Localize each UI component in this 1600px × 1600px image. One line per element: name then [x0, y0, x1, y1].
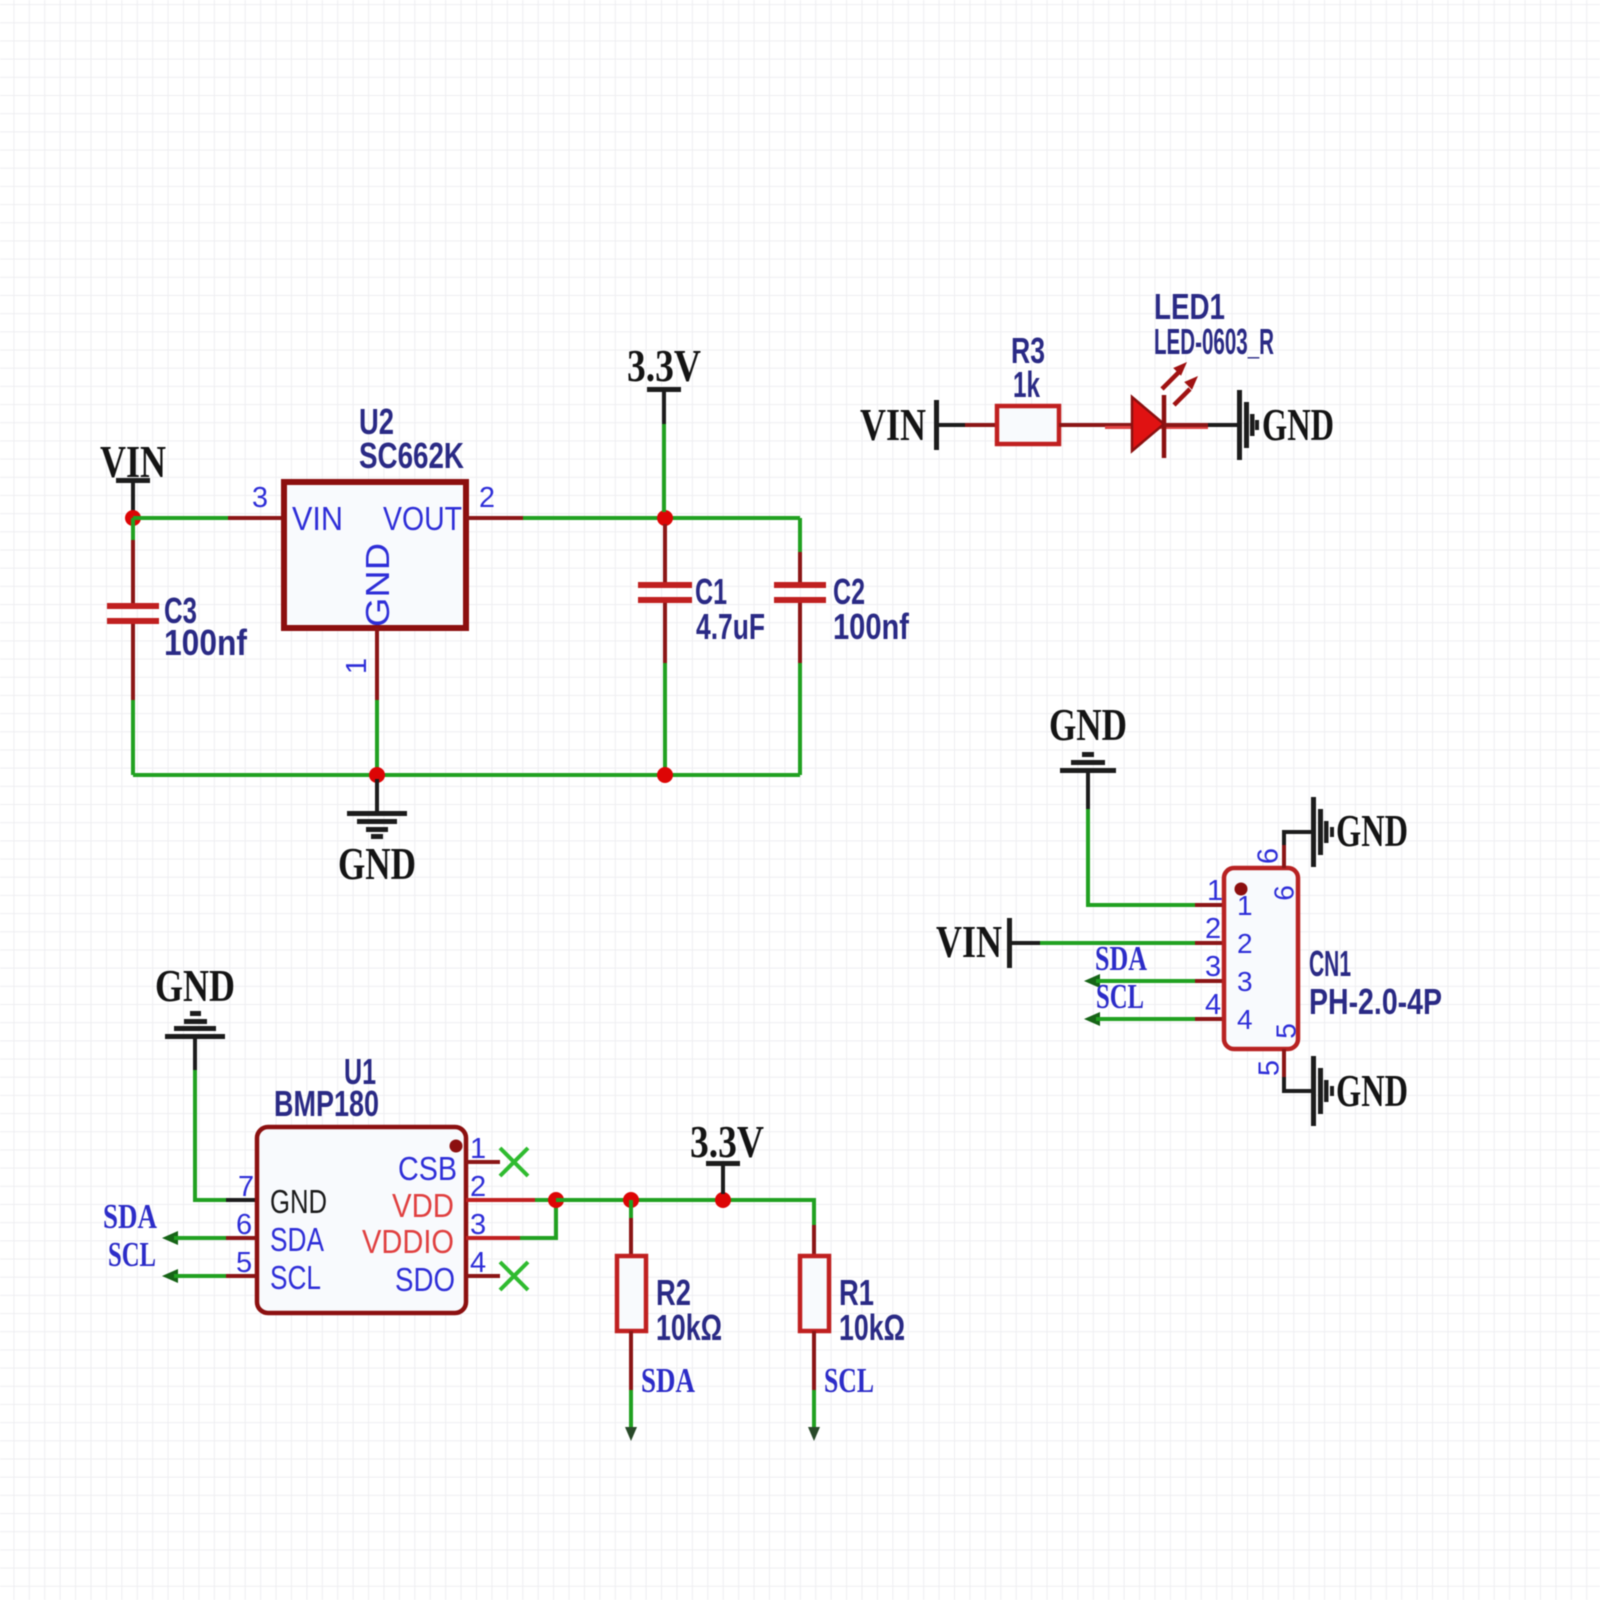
svg-text:6: 6 [1268, 885, 1299, 901]
svg-text:SC662K: SC662K [359, 435, 464, 476]
svg-text:4: 4 [1205, 989, 1221, 1021]
pin 3 stub of CN1 [1195, 979, 1224, 983]
svg-text:3: 3 [1205, 951, 1221, 983]
capacitor C1 [638, 524, 692, 775]
net flag GND (bottom right of CN1) [1311, 1056, 1408, 1126]
chip U1 body BMP180 [257, 1127, 466, 1313]
svg-text:SDA: SDA [1095, 939, 1148, 978]
svg-text:1k: 1k [1013, 364, 1041, 405]
pin 1 stub of U1 [466, 1160, 500, 1164]
wire VIN to CN1 pin 2 [1040, 941, 1195, 945]
junction VDD node [548, 1192, 564, 1208]
net flag VIN (top right) [860, 399, 965, 450]
wire VOUT to C2 corner [523, 516, 800, 520]
pin 2 stub of CN1 [1195, 941, 1224, 945]
capacitor C3 [107, 518, 159, 775]
pin 1 marker dot of U1 [450, 1140, 463, 1153]
pin 1 marker dot of CN1 [1235, 883, 1248, 896]
net flag GND (top right of CN1) [1311, 797, 1408, 867]
svg-text:BMP180: BMP180 [274, 1083, 379, 1124]
svg-text:2: 2 [1237, 928, 1253, 959]
wire U2 GND to bus [375, 700, 379, 775]
junction VIN node [125, 510, 141, 526]
svg-text:VOUT: VOUT [383, 500, 462, 537]
svg-text:VIN: VIN [936, 916, 1002, 967]
wire SDA to U1 pin 6 [162, 1231, 226, 1245]
wire GND to CN1 pin 1 [1088, 809, 1195, 905]
pin 7 stub of U1 [226, 1198, 257, 1202]
svg-text:GND: GND [155, 960, 235, 1011]
capacitor C2 [774, 518, 826, 775]
wire GND to U1 pin 7 [195, 1070, 226, 1200]
wire SCL to U1 pin 5 [162, 1269, 226, 1283]
pin 3 stub of U1 (VDDIO) [466, 1236, 520, 1240]
pin 5 stub of CN1 [1284, 1049, 1313, 1091]
svg-text:SCL: SCL [824, 1361, 874, 1400]
ground symbol (below U2) [347, 779, 407, 839]
op-amp U2 body SC662K [284, 482, 466, 628]
wire VDD to junction [535, 1198, 556, 1202]
svg-text:SDA: SDA [270, 1221, 324, 1258]
svg-text:5: 5 [1270, 1023, 1301, 1039]
net flag GND (above CN1) [1049, 699, 1127, 809]
svg-text:GND: GND [1336, 805, 1408, 856]
svg-text:10kΩ: 10kΩ [839, 1307, 905, 1348]
svg-text:3: 3 [1237, 966, 1253, 997]
svg-text:GND: GND [359, 543, 396, 627]
power flag 3.3V (top) [627, 340, 701, 512]
connector CN1 body [1224, 868, 1298, 1049]
pin 2 stub of U2 [466, 516, 523, 520]
resistor R1 [800, 1225, 829, 1441]
svg-text:SDA: SDA [641, 1361, 696, 1400]
svg-text:SDA: SDA [103, 1197, 158, 1236]
svg-text:GND: GND [1049, 699, 1127, 750]
net flag GND (right of LED1) [1237, 390, 1334, 460]
svg-text:2: 2 [479, 482, 495, 514]
no-connect cross pin 1 [500, 1148, 528, 1176]
wire ground bus [133, 773, 800, 777]
power flag 3.3V (bottom) [690, 1116, 764, 1194]
svg-text:1: 1 [1207, 875, 1223, 907]
svg-text:3: 3 [252, 482, 268, 514]
svg-text:GND: GND [338, 838, 416, 889]
svg-text:SCL: SCL [1096, 977, 1144, 1016]
svg-text:100nf: 100nf [833, 606, 910, 647]
wire LED1 to GND flag [1164, 423, 1239, 427]
svg-text:100nf: 100nf [164, 622, 248, 663]
junction 3.3V stem (bottom) [715, 1192, 731, 1208]
net flag VIN (left) [100, 436, 166, 518]
wire 3.3V bus (bottom) [556, 1200, 814, 1225]
pin 1 stub of U2 (GND) [375, 628, 379, 700]
svg-text:SDO: SDO [395, 1261, 455, 1298]
wire VDDIO to junction [520, 1200, 556, 1238]
svg-text:VDD: VDD [392, 1187, 454, 1224]
LED LED1 [1105, 362, 1208, 458]
svg-text:3.3V: 3.3V [627, 340, 701, 391]
svg-text:1: 1 [1237, 890, 1253, 921]
wire SCL to CN1 pin 4 [1084, 1012, 1195, 1026]
junction 3.3V node [657, 510, 673, 526]
svg-text:GND: GND [1262, 399, 1334, 450]
net flag GND (above U1) [155, 960, 235, 1070]
svg-text:2: 2 [1205, 913, 1221, 945]
wire VIN flag to R3 [965, 423, 997, 427]
svg-text:CN1: CN1 [1309, 943, 1351, 984]
svg-text:VIN: VIN [860, 399, 926, 450]
wire VIN to U2 pin 3 [133, 516, 228, 520]
resistor R3 [997, 406, 1059, 444]
pin 1 stub of CN1 [1195, 903, 1224, 907]
pin 3 stub of U2 [228, 516, 284, 520]
svg-text:10kΩ: 10kΩ [656, 1307, 722, 1348]
pin 4 stub of U1 [466, 1274, 500, 1278]
svg-text:GND: GND [1336, 1065, 1408, 1116]
svg-text:1: 1 [341, 658, 373, 674]
pin 5 stub of U1 [226, 1274, 257, 1278]
svg-text:5: 5 [1254, 1060, 1286, 1076]
junction ground bus at C1 [657, 767, 673, 783]
svg-text:6: 6 [1253, 848, 1285, 864]
svg-text:3.3V: 3.3V [690, 1116, 764, 1167]
svg-text:7: 7 [238, 1171, 254, 1203]
junction R2 top [623, 1192, 639, 1208]
svg-text:GND: GND [270, 1183, 327, 1220]
svg-text:PH-2.0-4P: PH-2.0-4P [1309, 981, 1442, 1022]
junction ground bus at U2 [369, 767, 385, 783]
svg-text:SCL: SCL [108, 1235, 156, 1274]
svg-text:CSB: CSB [398, 1150, 457, 1187]
svg-text:VIN: VIN [292, 500, 343, 537]
svg-text:LED-0603_R: LED-0603_R [1154, 321, 1274, 362]
pin 6 stub of U1 [226, 1236, 257, 1240]
wire SDA to CN1 pin 3 [1084, 974, 1195, 988]
svg-text:4.7uF: 4.7uF [696, 606, 765, 647]
pin 4 stub of CN1 [1195, 1017, 1224, 1021]
svg-text:VDDIO: VDDIO [362, 1223, 454, 1260]
wire R3 to LED1 [1059, 423, 1134, 427]
resistor R2 [617, 1200, 646, 1441]
pin 6 stub of CN1 [1284, 832, 1313, 868]
svg-text:SCL: SCL [270, 1259, 321, 1296]
net flag VIN (at CN1) [936, 916, 1040, 968]
svg-text:4: 4 [1237, 1004, 1253, 1035]
pin 2 stub of U1 (VDD) [466, 1198, 535, 1202]
no-connect cross pin 4 [500, 1262, 528, 1290]
